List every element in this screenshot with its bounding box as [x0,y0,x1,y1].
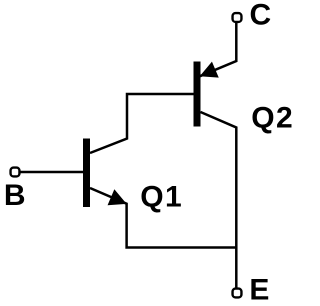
transistor Q2 emitter arrow [200,62,219,78]
transistor Q1 base bar [83,139,90,208]
terminal C [233,13,242,22]
wire Q2 collector to E [201,112,237,288]
terminal B [11,168,20,177]
svg-text:Q1: Q1 [140,181,183,214]
svg-text:E: E [249,274,269,306]
svg-text:B: B [4,179,26,212]
wire Q1 emitter to bottom rail [90,188,236,248]
transistor Q1 emitter arrow [108,189,127,205]
wire C to Q2 emitter [200,18,237,76]
transistor Q2 base bar [194,62,201,127]
svg-text:C: C [250,0,272,31]
wire B to Q1 base [15,171,83,174]
terminal E [233,289,242,298]
svg-text:Q2: Q2 [251,102,294,135]
wire Q1 collector to Q2 base [90,94,194,153]
